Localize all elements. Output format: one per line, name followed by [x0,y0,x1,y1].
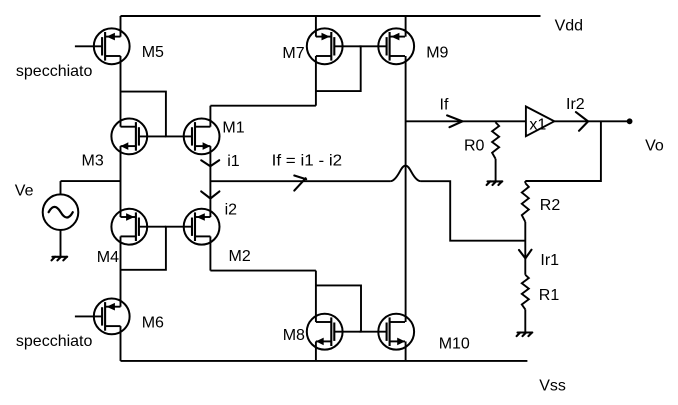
svg-text:R1: R1 [539,287,560,304]
svg-text:M7: M7 [282,45,304,62]
svg-text:If = i1 - i2: If = i1 - i2 [272,153,343,170]
svg-text:M3: M3 [82,153,104,170]
svg-text:M6: M6 [142,314,164,331]
svg-text:Ve: Ve [15,182,34,199]
svg-text:i2: i2 [225,202,238,219]
svg-text:M2: M2 [229,248,251,265]
svg-text:R0: R0 [464,138,485,155]
svg-text:Ir2: Ir2 [566,96,585,113]
svg-text:specchiato: specchiato [16,333,93,350]
svg-text:M1: M1 [222,120,244,137]
svg-text:R2: R2 [540,197,561,214]
svg-text:M10: M10 [439,336,470,353]
svg-text:M9: M9 [426,45,448,62]
svg-text:i1: i1 [227,153,240,170]
svg-text:Vdd: Vdd [555,18,583,35]
svg-text:Vss: Vss [539,378,566,395]
svg-text:x1: x1 [529,116,546,133]
svg-text:specchiato: specchiato [16,63,93,80]
svg-text:M8: M8 [283,327,305,344]
svg-text:M4: M4 [97,249,119,266]
svg-text:Vo: Vo [645,138,664,155]
svg-text:Ir1: Ir1 [540,252,559,269]
svg-text:If: If [440,97,449,114]
svg-text:M5: M5 [142,44,164,61]
